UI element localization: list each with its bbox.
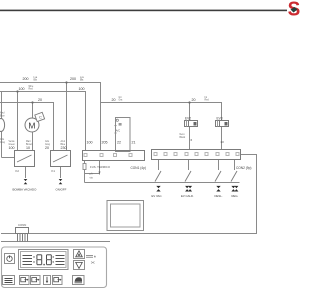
- svg-text:Black: Black: [180, 137, 186, 139]
- svg-text:Azul: Azul: [61, 140, 66, 143]
- svg-text:200: 200: [23, 77, 29, 81]
- svg-text:FUS. TERMICO: FUS. TERMICO: [90, 165, 111, 169]
- svg-text:Int: Int: [205, 96, 208, 99]
- svg-text:Verde: Verde: [9, 140, 16, 143]
- svg-text:Wire: Wire: [29, 85, 34, 88]
- svg-text:Red: Red: [29, 89, 34, 91]
- svg-text:REG.: REG.: [232, 194, 239, 198]
- svg-text:K2: K2: [16, 169, 20, 173]
- svg-text:M: M: [28, 120, 35, 130]
- svg-text:230: 230: [61, 146, 67, 150]
- svg-text:Gri: Gri: [119, 96, 123, 99]
- svg-text:100: 100: [9, 146, 15, 150]
- svg-text:EV2: EV2: [185, 116, 191, 120]
- svg-text:EV CALD.: EV CALD.: [181, 194, 194, 198]
- svg-text:Red: Red: [205, 100, 210, 102]
- svg-text:Brown: Brown: [26, 143, 33, 146]
- svg-text:100: 100: [87, 141, 93, 145]
- svg-text:13: 13: [220, 140, 224, 144]
- svg-text:BOMBA VACIADO: BOMBA VACIADO: [13, 187, 38, 191]
- svg-text:Nero: Nero: [180, 133, 186, 136]
- svg-text:µA: µA: [90, 173, 93, 176]
- svg-text:Blue: Blue: [0, 116, 5, 118]
- svg-text:20: 20: [38, 98, 42, 102]
- svg-text:Blue: Blue: [61, 144, 66, 146]
- svg-text:205: 205: [102, 141, 108, 145]
- svg-text:CONN: CONN: [18, 223, 26, 227]
- svg-text:CON2 (9p): CON2 (9p): [236, 166, 251, 170]
- svg-text:ON/OFF: ON/OFF: [56, 187, 67, 191]
- svg-text:20: 20: [45, 146, 49, 150]
- svg-text:100: 100: [19, 87, 25, 91]
- svg-text:K1: K1: [52, 169, 56, 173]
- svg-text:21: 21: [132, 141, 136, 145]
- svg-text:Gray: Gray: [45, 143, 51, 146]
- svg-text:20: 20: [192, 98, 196, 102]
- svg-text:EV VAC.: EV VAC.: [152, 194, 163, 198]
- svg-text:200: 200: [70, 77, 76, 81]
- svg-text:Marr: Marr: [26, 140, 31, 143]
- svg-text:20: 20: [112, 98, 116, 102]
- svg-text:A/C: A/C: [116, 129, 120, 133]
- svg-text:C: C: [39, 115, 42, 120]
- svg-text:100: 100: [79, 87, 85, 91]
- svg-text:Azul: Azul: [0, 112, 5, 115]
- svg-text:Green: Green: [9, 143, 16, 146]
- svg-text:10: 10: [26, 146, 30, 150]
- svg-text:DESL.: DESL.: [215, 194, 223, 198]
- svg-text:EV3: EV3: [217, 116, 223, 120]
- svg-text:22: 22: [117, 141, 121, 145]
- svg-text:Gray: Gray: [0, 141, 6, 144]
- svg-text:CON1 (4p): CON1 (4p): [131, 166, 146, 170]
